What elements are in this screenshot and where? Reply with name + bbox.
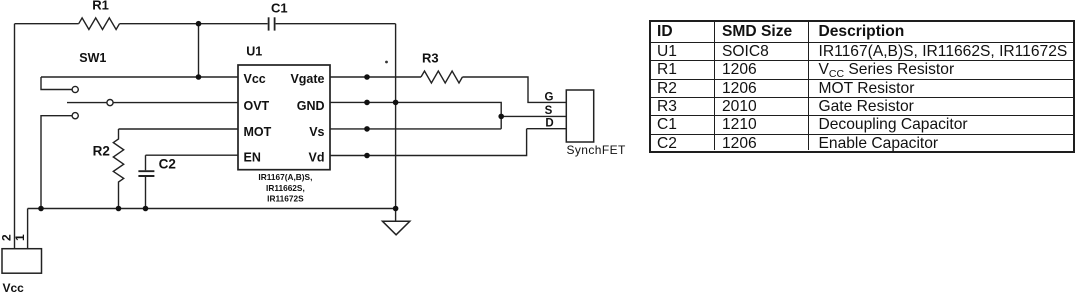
- wire top rail C1 to right corner: [276, 23, 396, 25]
- wire left rail vertical (Vcc pin 2): [14, 24, 16, 249]
- wire SW1 common to OVT: [67, 102, 107, 104]
- wire S node to SynchFET: [501, 115, 566, 117]
- wire vertical R1 node to Vcc pin: [198, 24, 200, 77]
- wire U1 Vgate to R3: [330, 76, 421, 78]
- svg-text:G: G: [545, 91, 554, 103]
- svg-text:U1: U1: [246, 45, 262, 59]
- resistor R1: [79, 18, 120, 30]
- IC U1 body: [238, 65, 330, 170]
- svg-text:OVT: OVT: [244, 99, 270, 113]
- wire U1 Vd to D corner: [330, 129, 527, 156]
- svg-text:GND: GND: [297, 99, 325, 113]
- capacitor C2: [145, 155, 147, 170]
- parts table: [649, 20, 1075, 153]
- svg-text:Vd: Vd: [309, 151, 325, 165]
- junction Vgate wire dot: [364, 74, 370, 80]
- capacitor C1: [269, 17, 275, 30]
- junction Vcc pin node: [196, 74, 202, 80]
- wire U1 GND to S corner: [330, 102, 501, 128]
- svg-text:R3: R3: [422, 51, 439, 66]
- junction bus R2: [116, 206, 122, 212]
- wire ground rail vertical: [395, 24, 397, 222]
- junction Vd wire dot: [364, 153, 370, 159]
- switch SW1 contact common: [107, 100, 113, 106]
- resistor R2: [113, 129, 123, 209]
- svg-text:Vcc: Vcc: [3, 281, 25, 294]
- svg-text:IR11672S: IR11672S: [267, 193, 304, 203]
- svg-text:C2: C2: [159, 157, 176, 172]
- svg-text:EN: EN: [244, 151, 261, 165]
- svg-text:Vcc: Vcc: [244, 72, 266, 86]
- wire EN to U1: [146, 154, 239, 156]
- connector Vcc box: [2, 249, 42, 274]
- svg-text:2: 2: [0, 234, 14, 241]
- wire Vcc pin to U1: [41, 76, 238, 78]
- svg-text:IR11662S,: IR11662S,: [266, 183, 305, 193]
- svg-text:1: 1: [13, 234, 27, 241]
- wire MOT to U1: [119, 128, 239, 130]
- resistor R3: [421, 71, 462, 83]
- junction GND wire dot: [364, 100, 370, 106]
- junction Vs wire dot: [364, 126, 370, 132]
- svg-text:D: D: [545, 118, 553, 130]
- junction bus SW1: [38, 206, 44, 212]
- svg-text:C1: C1: [271, 1, 288, 16]
- junction S node: [498, 114, 504, 120]
- svg-text:S: S: [545, 105, 553, 117]
- svg-text:Vs: Vs: [309, 125, 324, 139]
- svg-text:SW1: SW1: [79, 51, 106, 65]
- junction GND/ground rail: [393, 100, 399, 106]
- svg-text:Vgate: Vgate: [290, 72, 324, 86]
- switch SW1 contact bottom: [72, 113, 78, 119]
- switch SW1 contact top: [72, 86, 78, 92]
- ground symbol: [383, 221, 410, 235]
- wire Vcc pin 1 drop: [27, 209, 29, 249]
- wire SW1 arm bottom: [41, 116, 72, 209]
- junction bus ground rail: [393, 206, 399, 212]
- wire ground bus horizontal: [28, 208, 396, 210]
- wire top Vcc rail horizontal left segment: [15, 23, 79, 25]
- wire U1 Vs: [330, 128, 501, 130]
- wire SW1 arm top: [41, 77, 72, 90]
- svg-text:IR1167(A,B)S,: IR1167(A,B)S,: [258, 172, 312, 182]
- wire top rail R1 to C1: [120, 23, 268, 25]
- wire R3 to G corner: [462, 77, 566, 102]
- junction bus C2: [143, 206, 149, 212]
- svg-text:R2: R2: [93, 144, 110, 159]
- wire D to SynchFET: [527, 128, 567, 130]
- svg-text:SynchFET: SynchFET: [567, 143, 626, 157]
- stray ink dot: [385, 61, 388, 64]
- svg-text:R1: R1: [92, 0, 109, 13]
- junction R1/C1 node top: [196, 21, 202, 27]
- transistor SynchFET body: [566, 90, 593, 142]
- svg-text:MOT: MOT: [244, 125, 272, 139]
